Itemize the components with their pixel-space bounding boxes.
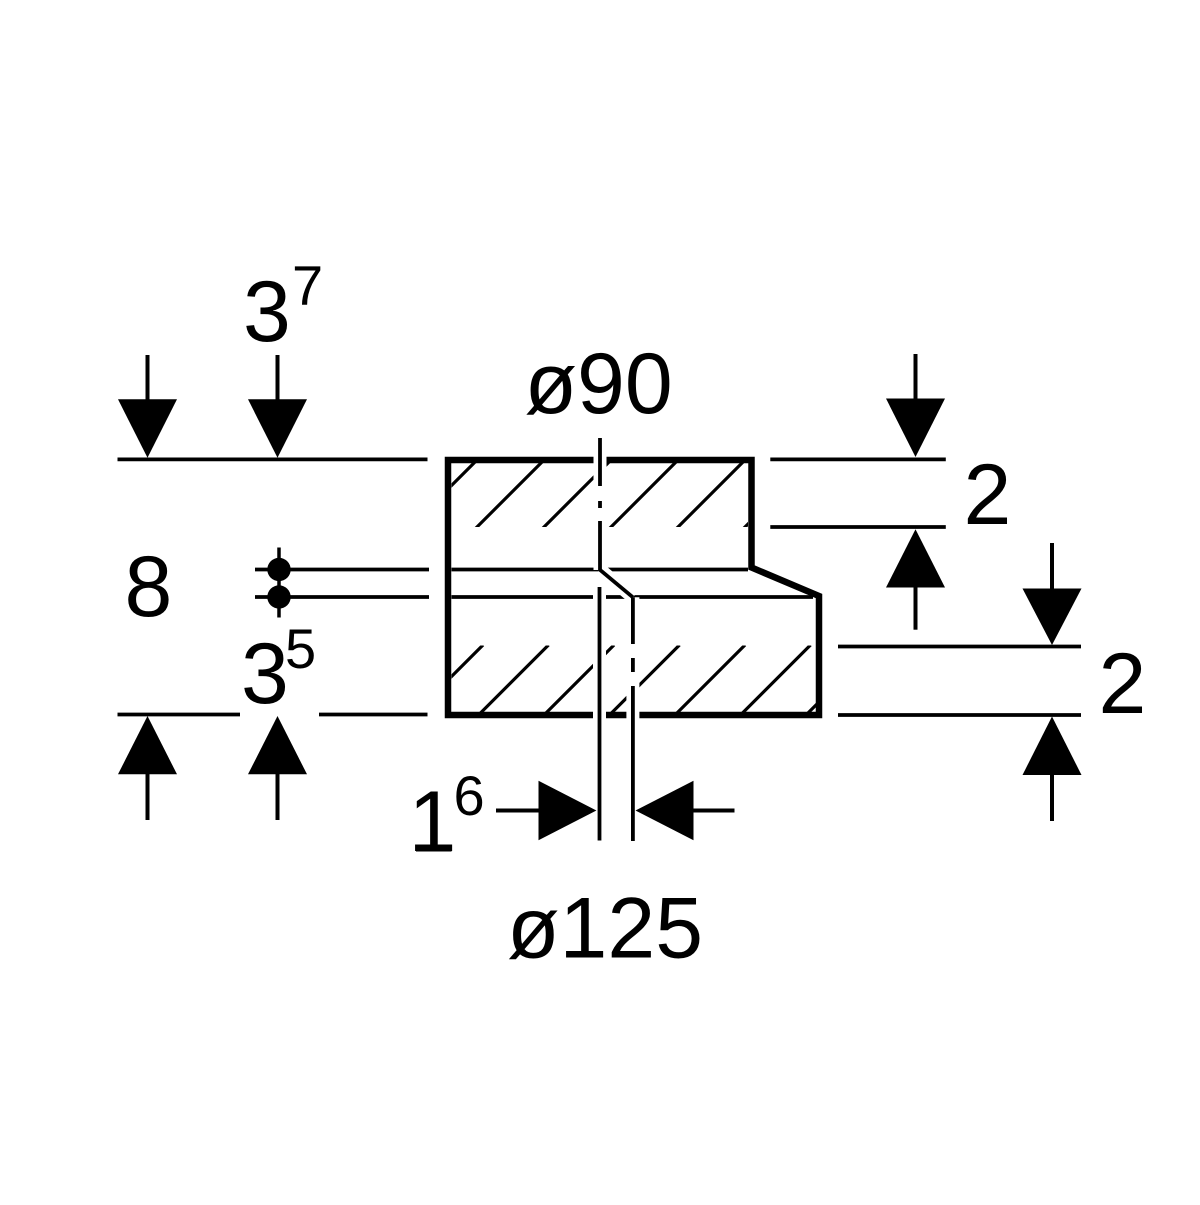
- svg-text:ø125: ø125: [507, 881, 703, 977]
- dimension 8 dot lower: [267, 585, 290, 608]
- dimension 3.7 arrow left: [118, 355, 177, 458]
- dimension 2 upper-right lines: [770, 457, 946, 461]
- svg-text:3: 3: [241, 626, 289, 722]
- dimension 1.6 right arrow: [636, 781, 735, 841]
- centerline lower left: [598, 587, 602, 841]
- dimension 8 lines: [255, 568, 429, 572]
- dimension 3.5 arrow left: [118, 716, 177, 820]
- centerline top (dash-dot): [598, 438, 602, 571]
- body outline: [448, 460, 819, 715]
- svg-text:2: 2: [964, 447, 1012, 543]
- dimension 8 tick line: [277, 548, 281, 618]
- svg-text:2: 2: [1099, 636, 1147, 732]
- dimension 8 dot upper: [267, 558, 290, 581]
- svg-text:5: 5: [285, 617, 316, 680]
- dimension 2 upper-right up arrow: [886, 529, 945, 629]
- centerline white casings: [600, 438, 633, 841]
- dimension 2 lower-right lines: [838, 645, 1081, 649]
- dimension 3.5 line: [118, 713, 241, 717]
- inner socket line lower: [452, 595, 814, 599]
- svg-text:8: 8: [125, 539, 173, 635]
- svg-text:ø90: ø90: [525, 336, 673, 432]
- hatching upper band: [408, 462, 810, 529]
- centerline jog: [600, 570, 633, 598]
- dimension 2 lower-right down arrow: [1023, 543, 1082, 645]
- dimension 3.5 arrow right: [248, 716, 307, 820]
- svg-text:6: 6: [454, 764, 485, 827]
- centerline lower right (dash-dot): [631, 597, 635, 841]
- hatching lower band: [415, 645, 877, 714]
- inner socket line upper: [452, 568, 749, 572]
- dimension 3.7 line: [118, 457, 428, 461]
- svg-text:1: 1: [409, 774, 457, 870]
- dimension 2 lower-right up arrow: [1023, 717, 1082, 822]
- svg-text:7: 7: [292, 254, 323, 317]
- svg-text:3: 3: [243, 264, 291, 360]
- dimension 1.6 left arrow: [496, 781, 596, 841]
- dimension 2 upper-right down arrow: [886, 354, 945, 457]
- dimension 3.7 arrow right: [248, 355, 307, 458]
